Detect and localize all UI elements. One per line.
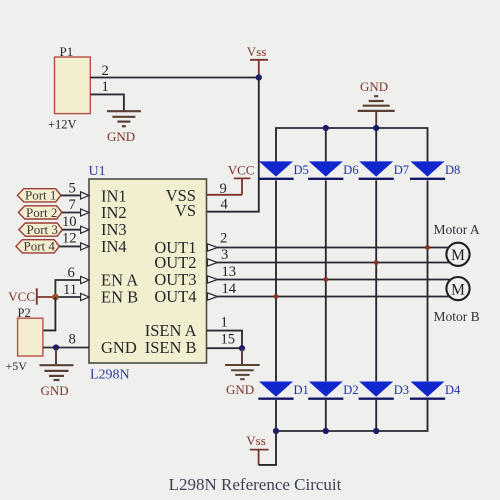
motor Motor B <box>434 277 480 324</box>
port flag Port 2 <box>18 205 62 220</box>
power symbol Vss top <box>247 44 268 78</box>
wire EN A to VCC node <box>55 280 82 297</box>
svg-text:5: 5 <box>69 181 76 197</box>
wire ground to top bus <box>375 111 377 128</box>
svg-text:OUT4: OUT4 <box>154 287 196 306</box>
diode D2 <box>308 382 358 399</box>
node OUT3 D6 column <box>323 277 328 282</box>
svg-text:12: 12 <box>62 231 77 247</box>
svg-text:15: 15 <box>221 332 236 348</box>
wire P1 pin1 to ground <box>90 94 124 110</box>
diode D3 <box>359 382 409 399</box>
svg-text:13: 13 <box>222 264 237 280</box>
wire P2 to GND pin 8 <box>43 347 89 349</box>
svg-text:EN B: EN B <box>101 288 138 307</box>
diode D5 <box>258 161 308 178</box>
svg-text:D5: D5 <box>294 163 309 177</box>
power symbol VCC at pin 9 <box>206 163 254 195</box>
svg-text:2: 2 <box>102 63 109 79</box>
pin IN3 input arrow <box>81 226 89 233</box>
node top bus D6 <box>323 125 329 131</box>
ground top right inverted <box>358 96 395 111</box>
svg-text:2: 2 <box>220 230 227 246</box>
wire ISEN B to ground node <box>207 347 243 349</box>
svg-text:Port 1: Port 1 <box>25 188 56 203</box>
svg-text:GND: GND <box>101 338 137 357</box>
svg-text:4: 4 <box>221 197 229 213</box>
svg-text:9: 9 <box>220 181 227 197</box>
svg-text:D7: D7 <box>394 163 409 177</box>
svg-text:GND: GND <box>360 79 388 94</box>
wire EN B to VCC node <box>55 296 82 298</box>
svg-text:GND: GND <box>226 382 254 397</box>
wire top diode bus <box>276 128 428 161</box>
ground under P2 <box>40 365 74 380</box>
svg-text:VCC: VCC <box>8 289 35 304</box>
svg-text:Port 4: Port 4 <box>24 239 56 254</box>
pin OUT4 arrow <box>208 293 218 300</box>
wire Port3 to IN3 <box>62 229 82 231</box>
diode D1 <box>258 382 308 399</box>
svg-text:IN4: IN4 <box>101 237 127 256</box>
wire D7 column top <box>375 128 377 161</box>
diode D8 <box>410 161 460 178</box>
power symbol VCC left <box>8 288 55 304</box>
svg-text:6: 6 <box>68 265 75 281</box>
diode D4 <box>410 382 461 399</box>
svg-text:D3: D3 <box>394 383 409 397</box>
svg-text:Vss: Vss <box>246 433 266 448</box>
svg-text:U1: U1 <box>89 164 106 179</box>
motor Motor A <box>434 222 480 266</box>
node ISEN ground junction <box>239 345 245 351</box>
svg-text:Motor B: Motor B <box>434 309 480 324</box>
pin OUT2 arrow <box>208 259 218 266</box>
wire Vss node down to VS pin <box>206 78 259 212</box>
node Vss junction <box>256 74 262 80</box>
svg-text:ISEN B: ISEN B <box>145 338 197 357</box>
svg-text:1: 1 <box>102 79 109 95</box>
wire VCC node to P2 <box>43 297 56 330</box>
svg-text:GND: GND <box>107 129 135 144</box>
svg-text:Port 2: Port 2 <box>26 205 57 220</box>
node bottom bus D2 <box>323 428 329 434</box>
svg-text:Port 3: Port 3 <box>27 222 58 237</box>
svg-text:3: 3 <box>221 247 228 263</box>
svg-text:GND: GND <box>41 383 69 398</box>
svg-text:D8: D8 <box>445 163 460 177</box>
connector P2 <box>6 306 43 373</box>
IC pin labels left <box>101 187 138 358</box>
svg-text:D1: D1 <box>294 383 309 397</box>
svg-text:VS: VS <box>175 201 196 220</box>
svg-text:10: 10 <box>62 214 77 230</box>
diode D7 <box>359 161 409 178</box>
svg-text:7: 7 <box>69 197 76 213</box>
svg-text:8: 8 <box>69 332 76 348</box>
IC U1 L298N body <box>89 164 207 383</box>
node OUT2 D7 column <box>374 260 379 265</box>
svg-text:11: 11 <box>63 282 77 298</box>
wire Port4 to IN4 <box>59 245 82 247</box>
wire D7-D3 column <box>375 180 377 381</box>
ground under ISEN <box>225 365 260 379</box>
wire OUT2 to Motor A <box>207 262 451 264</box>
node ground junction left <box>53 344 59 350</box>
wire bottom diode bus <box>276 400 428 431</box>
node OUT1 D8 column <box>425 245 430 250</box>
svg-text:+12V: +12V <box>48 118 77 132</box>
svg-text:P1: P1 <box>60 44 74 59</box>
wire OUT4 to Motor B <box>207 296 450 298</box>
pin OUT3 arrow <box>208 276 218 283</box>
svg-text:IN2: IN2 <box>101 203 127 222</box>
svg-text:L298N: L298N <box>90 368 130 383</box>
wire D6 column top <box>325 128 327 161</box>
svg-text:1: 1 <box>221 314 228 330</box>
pin IN2 input arrow <box>81 209 89 216</box>
wire D5-D1 column <box>275 180 277 381</box>
node bottom bus D3 <box>373 428 379 434</box>
port flag Port 4 <box>16 239 60 254</box>
svg-text:+5V: +5V <box>6 359 28 373</box>
svg-text:Vss: Vss <box>247 44 267 59</box>
svg-text:D4: D4 <box>445 383 461 397</box>
svg-text:Motor A: Motor A <box>434 222 480 237</box>
svg-text:M: M <box>451 282 465 299</box>
wire OUT1 to Motor A <box>207 247 450 249</box>
svg-text:VCC: VCC <box>228 163 255 178</box>
ground under P1 <box>107 111 141 126</box>
svg-text:14: 14 <box>222 281 237 297</box>
pin EN A input arrow <box>81 276 89 283</box>
svg-text:L298N Reference Circuit: L298N Reference Circuit <box>169 475 342 494</box>
node top bus D7 <box>373 125 379 131</box>
node VCC enable junction <box>52 294 59 301</box>
wire ISEN A to ground node <box>207 331 243 349</box>
pin OUT1 arrow <box>208 244 218 251</box>
wire Port1 to IN1 <box>61 194 82 196</box>
IC pin labels right <box>145 186 197 357</box>
port flag Port 3 <box>19 222 63 237</box>
svg-text:P2: P2 <box>18 306 31 320</box>
pin IN1 input arrow <box>81 192 89 199</box>
wire D6-D2 column <box>325 180 327 381</box>
pin EN B input arrow <box>81 293 89 300</box>
wire D8-D4 column <box>427 180 429 381</box>
svg-text:D6: D6 <box>343 163 358 177</box>
wire ISEN node to ground <box>241 348 243 365</box>
diode D6 <box>308 161 358 178</box>
node OUT4 D5 column <box>274 294 279 299</box>
port flag Port 1 <box>17 188 61 203</box>
svg-text:D2: D2 <box>343 383 358 397</box>
wire P1 pin2 to Vss node <box>90 77 258 79</box>
node bottom bus D1 <box>273 428 279 434</box>
wire node to ground <box>55 348 57 365</box>
pin IN4 input arrow <box>81 243 89 250</box>
svg-text:M: M <box>451 247 465 264</box>
power symbol Vss bottom <box>246 433 268 465</box>
connector P1 <box>48 44 90 132</box>
wire Port2 to IN2 <box>62 212 82 214</box>
wire OUT3 to Motor B <box>207 279 453 281</box>
wire Vss hook to bottom bus <box>259 431 276 465</box>
